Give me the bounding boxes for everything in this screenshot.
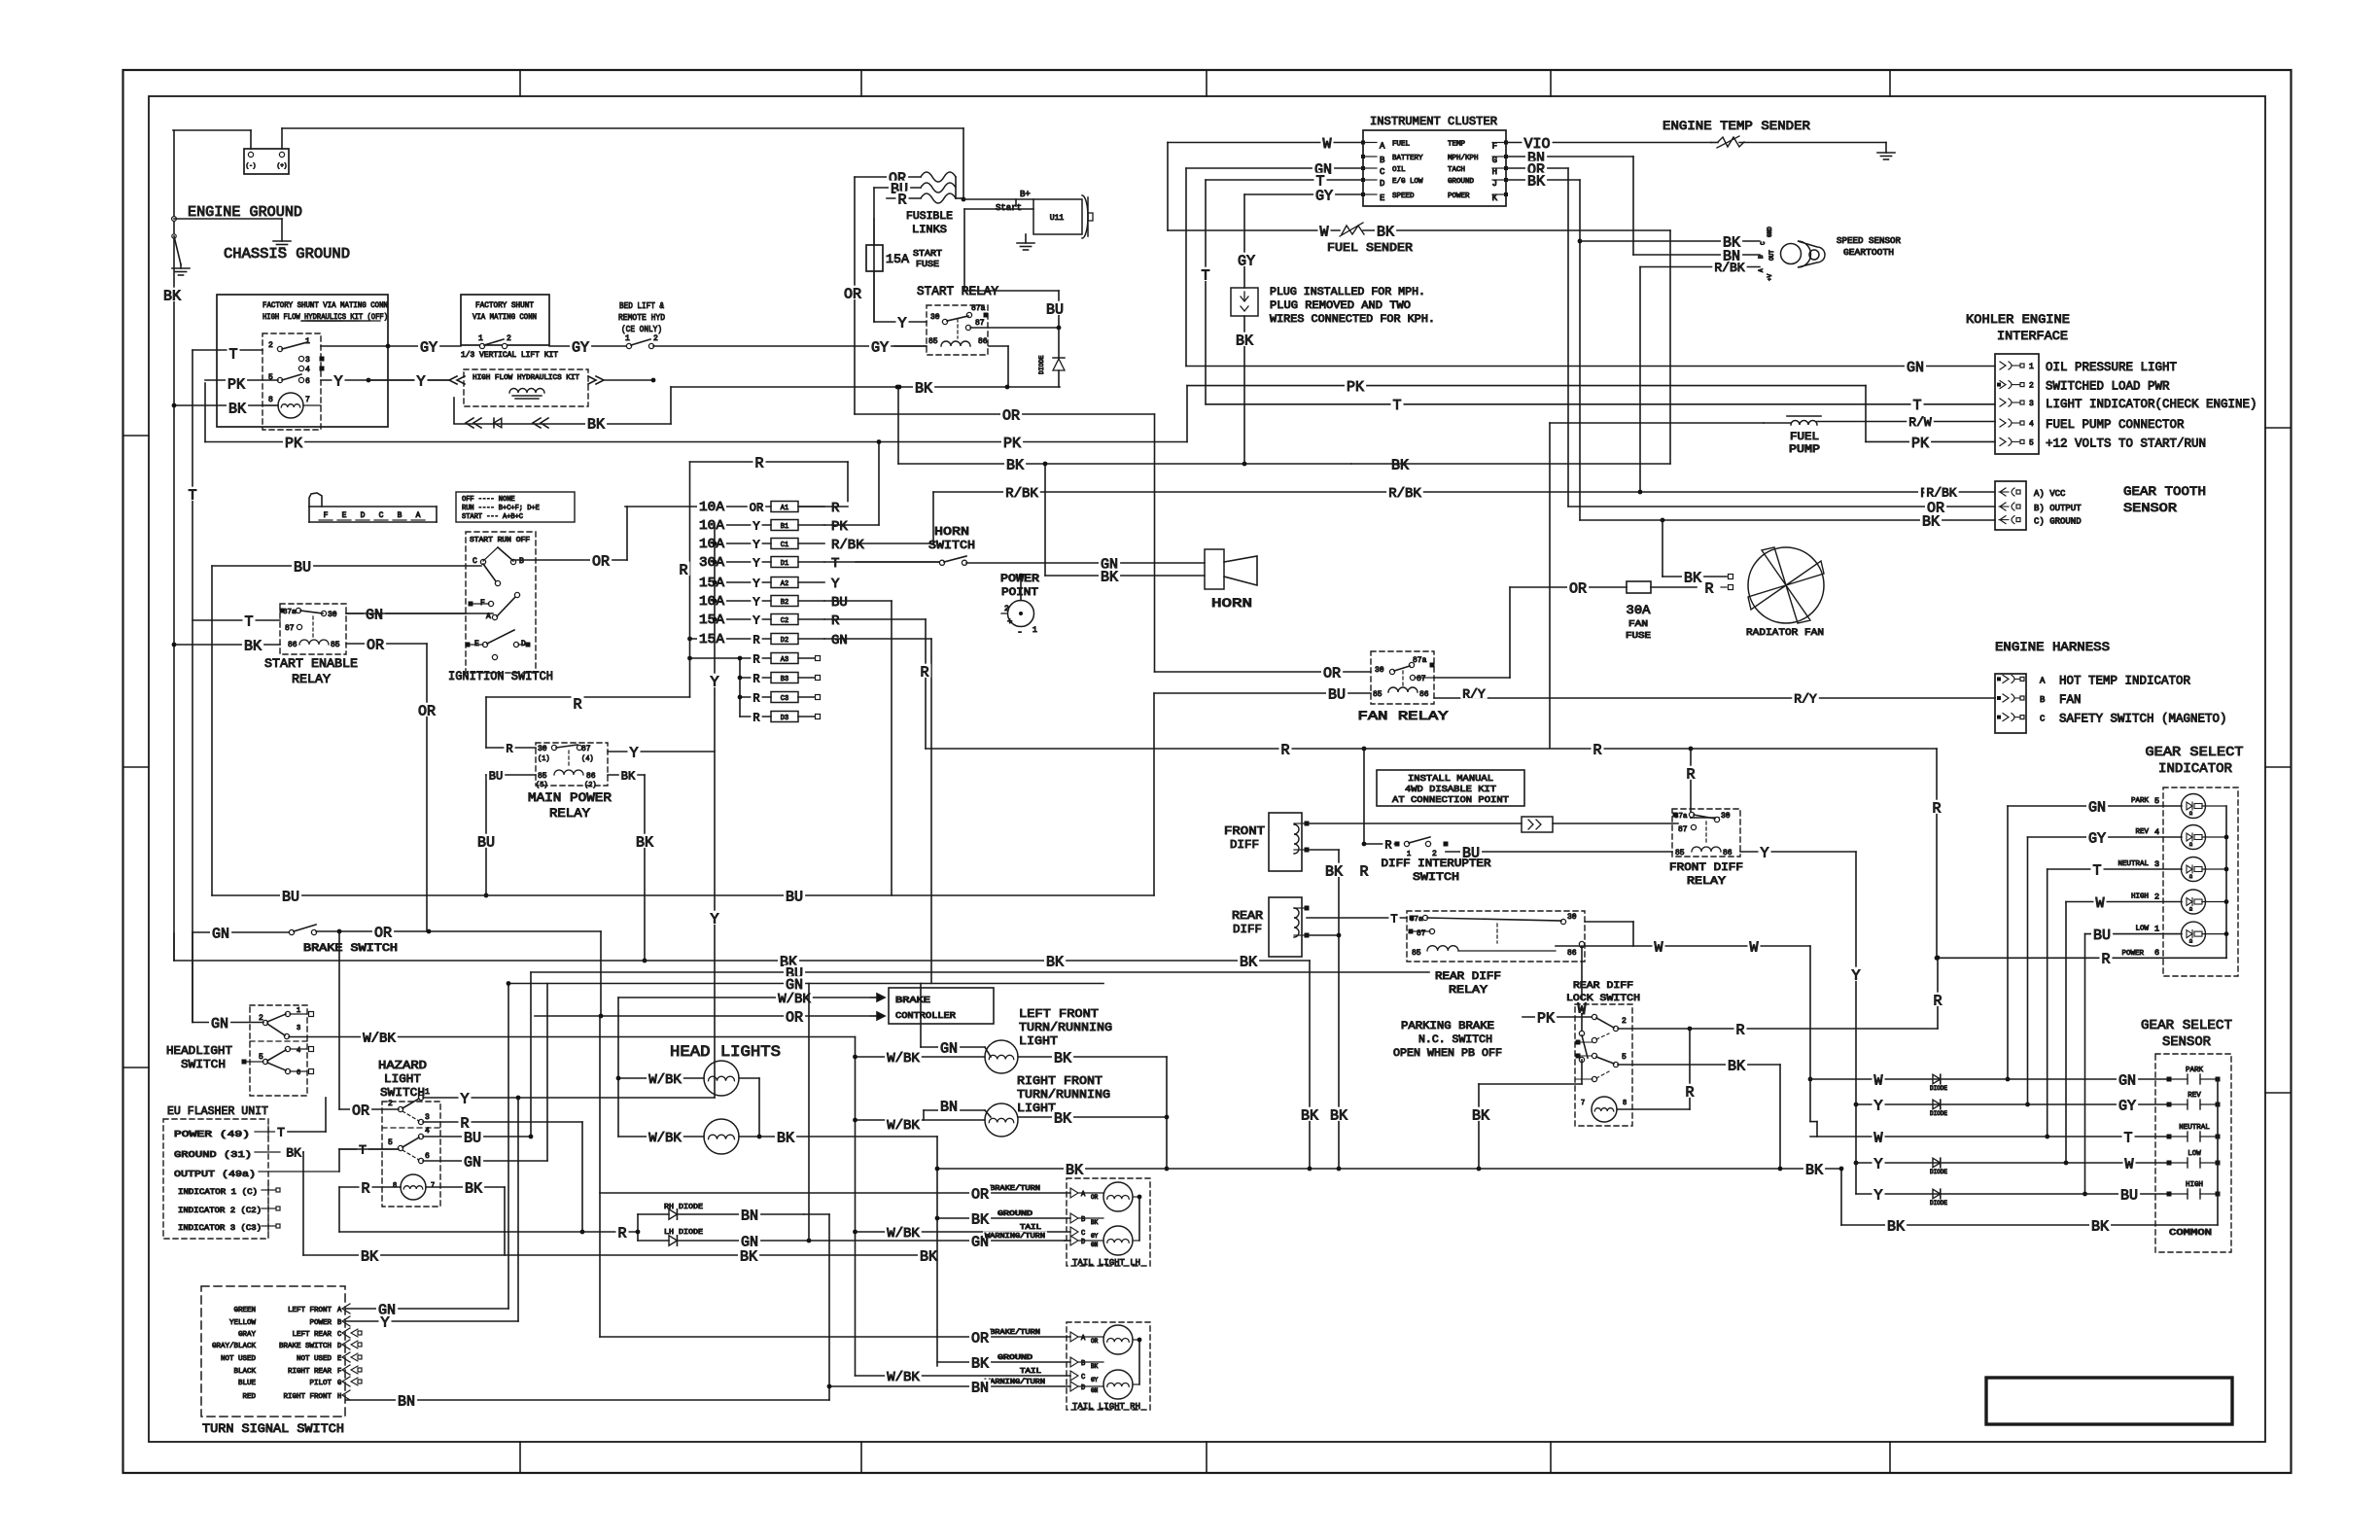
wire BK battery bus left <box>173 130 175 961</box>
hl pin3 <box>267 1014 300 1039</box>
svg-text:FUSE: FUSE <box>1626 631 1651 641</box>
connector FEDCBA outline <box>309 493 437 522</box>
diode bracket <box>636 1214 641 1241</box>
svg-text:HORN: HORN <box>934 525 969 539</box>
wire Y kit to BK node <box>604 378 655 383</box>
wire sensor row4 Y <box>1854 1161 2066 1166</box>
label BK cluster J <box>1525 173 1547 191</box>
label BU indicator <box>2091 927 2113 944</box>
label R power <box>2100 951 2113 968</box>
svg-text:R/BK: R/BK <box>1926 486 1956 501</box>
wire battery positive <box>282 128 963 149</box>
wire starter B+ <box>963 199 1033 206</box>
svg-text:8: 8 <box>1623 1100 1627 1107</box>
svg-text:OUTPUT (49a): OUTPUT (49a) <box>174 1169 256 1179</box>
svg-text:HORN: HORN <box>1211 596 1252 611</box>
svg-text:R: R <box>506 742 512 755</box>
start relay pin87 <box>965 319 1061 331</box>
svg-text:Y: Y <box>752 595 759 609</box>
wire T start enable <box>192 619 280 621</box>
wire Y front diff relay out <box>1740 851 1856 853</box>
border zone tick left 2 <box>123 766 150 768</box>
svg-text:CONTROLLER: CONTROLLER <box>895 1011 957 1021</box>
wire WBK tail rh <box>856 1367 1079 1382</box>
wire BN tail rh <box>827 1378 1103 1392</box>
eu ground <box>174 1149 280 1160</box>
node chassis ground <box>172 234 176 238</box>
ground symbol engine <box>273 241 291 248</box>
svg-text:86: 86 <box>288 641 297 649</box>
svg-text:DIODE: DIODE <box>1930 1200 1947 1207</box>
label BK sensor 2 <box>2089 1218 2111 1236</box>
svg-text:1: 1 <box>2154 925 2159 934</box>
label B BK lh <box>1081 1216 1099 1226</box>
label BK parking vert <box>1470 1107 1491 1125</box>
radiator fan circle <box>1748 547 1824 623</box>
tail rh lamp1 <box>1103 1325 1133 1354</box>
label FUSIBLE LINKS <box>906 211 953 236</box>
svg-text:1: 1 <box>478 334 483 343</box>
gear indicator LEDs <box>2008 794 2226 947</box>
wire BU main relay 85 <box>484 775 536 897</box>
svg-text:BRAKE SWITCH: BRAKE SWITCH <box>303 943 398 955</box>
node R bus 2 <box>1689 747 1694 752</box>
label BN cluster G <box>1525 150 1547 167</box>
svg-text:B2: B2 <box>781 599 788 607</box>
svg-text:30: 30 <box>538 745 547 753</box>
wire RW fuel pump <box>1817 421 1995 423</box>
svg-text:86: 86 <box>1723 849 1732 857</box>
label HAZARD LIGHT SWITCH <box>378 1059 427 1100</box>
front diff relay box <box>1672 809 1740 857</box>
label B+ <box>1020 190 1031 199</box>
wire R lock vert right <box>1936 956 1941 1029</box>
svg-text:BK: BK <box>163 288 181 304</box>
lock mid squares <box>1576 1040 1593 1059</box>
svg-text:T: T <box>244 613 253 630</box>
label POWER POINT <box>1000 574 1039 599</box>
fuse D2 15A <box>690 631 850 648</box>
svg-text:1: 1 <box>425 1088 430 1097</box>
front diff coil <box>1294 824 1299 854</box>
svg-text:B: B <box>398 511 402 520</box>
lock lamp <box>1581 1097 1627 1122</box>
wire R hazard lamp <box>339 1187 584 1234</box>
svg-text:POWER: POWER <box>1448 192 1470 200</box>
wire BN turn H <box>346 1399 829 1401</box>
svg-text:HIGH FLOW HYDRAULICS KIT: HIGH FLOW HYDRAULICS KIT <box>472 374 579 382</box>
svg-text:HIGH: HIGH <box>2186 1181 2203 1189</box>
svg-text:D1: D1 <box>781 560 788 568</box>
svg-text:NEUTRAL: NEUTRAL <box>2117 860 2149 868</box>
wire W net jog <box>1810 1122 1817 1137</box>
svg-text:GN: GN <box>1091 1242 1099 1248</box>
svg-text:+V: +V <box>1767 273 1773 281</box>
ignition switch box <box>466 532 536 673</box>
svg-text:Y: Y <box>710 911 718 927</box>
svg-text:HOT TEMP INDICATOR: HOT TEMP INDICATOR <box>2059 674 2191 687</box>
hl pin2 <box>259 1014 268 1026</box>
svg-text:BU: BU <box>477 834 495 851</box>
svg-text:W: W <box>1873 1130 1882 1146</box>
start enable pin 87a <box>280 608 301 616</box>
svg-text:Y: Y <box>1760 845 1768 861</box>
svg-text:WIRES CONNECTED FOR KPH.: WIRES CONNECTED FOR KPH. <box>1270 314 1435 326</box>
svg-text:LIGHT: LIGHT <box>1019 1034 1058 1048</box>
fusible link OR <box>921 172 956 182</box>
mph plug arrows <box>1241 292 1248 311</box>
wire eu power T riser <box>288 1098 326 1132</box>
svg-text:30: 30 <box>1567 913 1577 922</box>
label BK sensor 1 <box>1885 1218 1907 1236</box>
label T start enable <box>243 613 256 631</box>
turn signal box <box>201 1286 345 1417</box>
svg-text:OR: OR <box>1002 407 1020 424</box>
svg-text:INTERFACE: INTERFACE <box>1997 329 2068 343</box>
label PK lock switch <box>1535 1010 1557 1028</box>
node fuse D2 feed <box>687 637 692 661</box>
rear diff relay 87a <box>1410 915 1428 924</box>
hazard pin1 <box>402 1088 430 1108</box>
svg-text:C: C <box>2040 715 2046 724</box>
svg-text:A: A <box>2040 676 2046 685</box>
label GN brake switch <box>210 926 231 943</box>
svg-text:N.C. SWITCH: N.C. SWITCH <box>1418 1034 1492 1046</box>
svg-text:W/BK: W/BK <box>648 1131 682 1146</box>
svg-text:B: B <box>337 1319 341 1327</box>
wire T bus kohler <box>1206 403 1995 405</box>
label START RELAY <box>917 284 998 298</box>
svg-text:1: 1 <box>1407 851 1411 858</box>
svg-text:Y: Y <box>752 613 759 627</box>
rear diff relay 87 <box>1409 928 1435 938</box>
brake switch <box>289 925 316 935</box>
tail lh lamp1 <box>1103 1182 1133 1211</box>
connection point box <box>1522 817 1553 832</box>
border zone tick left 1 <box>123 435 150 437</box>
wire Y J1 to kit <box>368 379 449 381</box>
fuse A1 10A <box>625 499 841 516</box>
svg-text:BLUE: BLUE <box>238 1380 257 1387</box>
svg-text:GN: GN <box>366 607 383 623</box>
svg-text:B1: B1 <box>781 523 788 531</box>
svg-text:ENGINE HARNESS: ENGINE HARNESS <box>1995 640 2110 654</box>
svg-text:E: E <box>342 511 347 520</box>
label PARKING BRAKE <box>1393 1021 1502 1060</box>
svg-text:G: G <box>337 1380 341 1387</box>
label BU fan relay <box>1326 686 1347 704</box>
svg-text:RADIATOR FAN: RADIATOR FAN <box>1746 628 1824 639</box>
svg-text:POWER: POWER <box>2121 950 2144 958</box>
label W fuel sender <box>1318 224 1331 241</box>
svg-text:POWER (49): POWER (49) <box>174 1129 250 1139</box>
svg-text:GN: GN <box>211 1016 228 1032</box>
wire GY into relay 85 <box>894 345 926 347</box>
label RIGHT FRONT LIGHT <box>1017 1074 1110 1115</box>
border zone tick bottom 4 <box>1550 1442 1552 1473</box>
main relay pin87 <box>556 745 594 763</box>
label R diodes <box>616 1225 629 1242</box>
svg-text:4: 4 <box>305 366 310 374</box>
svg-text:FUEL SENDER: FUEL SENDER <box>1327 241 1413 255</box>
label BK plug <box>1234 332 1255 350</box>
svg-text:R/BK: R/BK <box>831 538 864 553</box>
label COMMON <box>2169 1228 2212 1238</box>
wire GN lf light <box>921 984 991 1058</box>
svg-text:D2: D2 <box>781 637 788 645</box>
wire GN turn A <box>346 1308 508 1310</box>
svg-text:C: C <box>472 557 477 566</box>
label BK lock5 <box>1726 1058 1747 1075</box>
fusible link R <box>921 193 956 203</box>
wire parking brake down <box>1479 1060 1582 1169</box>
svg-text:15A: 15A <box>886 252 909 266</box>
svg-text:PLUG REMOVED AND TWO: PLUG REMOVED AND TWO <box>1270 300 1411 312</box>
svg-text:GN: GN <box>831 633 848 648</box>
svg-text:BK: BK <box>1046 954 1064 970</box>
svg-text:R: R <box>1735 1022 1744 1038</box>
label BU fusible <box>889 181 910 198</box>
svg-text:BK: BK <box>1054 1050 1071 1067</box>
label W row1 <box>1872 1072 1885 1090</box>
svg-text:A3: A3 <box>781 656 788 664</box>
wire OR fan fuse <box>1510 587 1627 678</box>
svg-text:6: 6 <box>2154 948 2159 958</box>
svg-text:(4): (4) <box>581 755 594 763</box>
svg-text:30A: 30A <box>699 555 725 571</box>
wire fuse A1 R out <box>799 506 848 507</box>
svg-text:BK: BK <box>740 1248 757 1265</box>
label BRAKE SWITCH <box>303 943 398 955</box>
svg-text:GY: GY <box>1091 1377 1099 1383</box>
legend RUN <box>462 505 540 512</box>
svg-text:OIL: OIL <box>1392 166 1406 174</box>
label Y row2 <box>1872 1098 1885 1115</box>
svg-text:INDICATOR: INDICATOR <box>2158 761 2233 777</box>
svg-text:Ω: Ω <box>2189 939 2192 945</box>
svg-text:BK: BK <box>971 1211 989 1228</box>
label OR tail rh <box>969 1330 991 1347</box>
label REAR DIFF <box>1232 909 1263 936</box>
fan blades <box>1748 547 1824 623</box>
svg-text:BK: BK <box>1391 457 1409 473</box>
svg-text:R: R <box>679 562 687 578</box>
svg-text:R/BK: R/BK <box>1005 486 1038 502</box>
label SPEED SENSOR <box>1837 236 1902 258</box>
svg-text:RELAY: RELAY <box>1449 985 1487 997</box>
label OR cluster H <box>1525 161 1547 179</box>
label GEAR SELECT INDICATOR <box>2146 745 2244 777</box>
border zone tick top 4 <box>1550 70 1552 96</box>
svg-text:86: 86 <box>1419 690 1429 699</box>
svg-text:RELAY: RELAY <box>1687 876 1726 888</box>
ignition pin E <box>466 640 488 648</box>
svg-text:2: 2 <box>653 334 658 343</box>
svg-text:BK: BK <box>1887 1218 1905 1235</box>
svg-text:PLUG INSTALLED FOR MPH.: PLUG INSTALLED FOR MPH. <box>1270 287 1425 298</box>
svg-text:TAIL LIGHT LH: TAIL LIGHT LH <box>1072 1258 1140 1268</box>
lock pin3 <box>1592 1033 1609 1043</box>
svg-text:LEFT FRONT: LEFT FRONT <box>1019 1007 1099 1021</box>
svg-text:OR: OR <box>971 1330 989 1347</box>
label C GY lh <box>1081 1230 1099 1240</box>
label BN turn H <box>396 1393 417 1411</box>
wire GN bus <box>508 983 1103 985</box>
wire BK sensor <box>1841 1224 2218 1226</box>
wire fuse C2 R out <box>824 619 926 749</box>
node Y branch <box>367 378 371 383</box>
start enable pin 30 <box>300 611 337 619</box>
pin 7 J1 <box>305 396 310 404</box>
eu output <box>174 1149 339 1179</box>
label WBK headlamp2 <box>647 1130 683 1146</box>
svg-text:R: R <box>1685 1084 1694 1101</box>
label T cluster D <box>1314 173 1327 191</box>
wire W rear diff relay <box>1556 941 1810 948</box>
svg-text:BK: BK <box>1325 863 1343 880</box>
instrument cluster left pins <box>1361 141 1423 204</box>
label FRONT DIFF RELAY <box>1669 862 1743 888</box>
svg-text:7: 7 <box>431 1182 435 1190</box>
svg-text:BK: BK <box>1684 570 1701 586</box>
svg-text:BK: BK <box>1728 1058 1745 1074</box>
wire rear diff top T <box>1307 917 1407 919</box>
svg-text:B: B <box>2040 695 2046 705</box>
svg-text:W: W <box>1322 136 1331 153</box>
wire WBK headlight out <box>289 1036 618 1038</box>
label GEAR TOOTH SENSOR <box>2123 484 2206 515</box>
ground symbol starter <box>1017 234 1034 250</box>
svg-text:C3: C3 <box>781 695 788 703</box>
svg-text:7: 7 <box>305 396 310 404</box>
svg-text:D: D <box>337 1343 341 1350</box>
label REAR DIFF LOCK SWITCH <box>1566 981 1640 1004</box>
fan fuse <box>1627 581 1697 593</box>
svg-text:R/BK: R/BK <box>1714 261 1744 275</box>
rear diff relay coil <box>1412 924 1577 958</box>
svg-text:C: C <box>379 511 384 520</box>
front diff relay 87 <box>1678 824 1697 834</box>
wire GY lift to bedlift <box>549 345 627 347</box>
svg-text:WARNING/TURN: WARNING/TURN <box>985 1233 1045 1241</box>
svg-text:GY: GY <box>2118 1098 2136 1114</box>
svg-text:START ENABLE: START ENABLE <box>264 656 358 671</box>
arrows out kit right <box>588 376 604 384</box>
svg-text:OR: OR <box>750 501 763 514</box>
svg-text:E: E <box>1380 193 1384 203</box>
eu ind2 <box>178 1203 280 1215</box>
svg-text:Ω: Ω <box>2189 842 2192 848</box>
svg-text:OFF ---- NONE: OFF ---- NONE <box>462 496 515 504</box>
wire OR from ignition B <box>515 507 627 560</box>
svg-text:R: R <box>754 455 763 472</box>
pin 6 J1 <box>298 321 380 386</box>
svg-text:HIGH: HIGH <box>2131 893 2149 901</box>
fan relay box <box>1371 651 1434 704</box>
hazard divider <box>382 1127 440 1129</box>
label LEFT FRONT LIGHT <box>1019 1007 1112 1048</box>
label START RUN OFF <box>470 537 530 544</box>
svg-text:8: 8 <box>268 396 273 404</box>
label BRAKE CONTROLLER <box>895 996 957 1021</box>
label OR fusible <box>887 170 908 188</box>
label A OR lh <box>1081 1191 1099 1201</box>
label IGNITION SWITCH <box>448 669 553 683</box>
svg-text:BK: BK <box>1301 1107 1318 1124</box>
svg-text:A1: A1 <box>781 505 788 512</box>
svg-text:OR: OR <box>418 703 436 719</box>
wire BU vertical start relay <box>873 188 875 322</box>
svg-text:W/BK: W/BK <box>887 1051 920 1067</box>
wire conn point to relay 87 <box>1553 822 1678 824</box>
wire R diff int <box>1362 842 1397 847</box>
wire fusible OR <box>855 176 921 178</box>
label BK tail rh <box>969 1355 991 1373</box>
border zone tick left 3 <box>123 1067 150 1068</box>
wire BK rf light <box>1018 1116 1167 1118</box>
label Y 2 <box>415 373 428 391</box>
fuse C3 <box>740 691 821 705</box>
svg-text:W: W <box>1654 939 1662 956</box>
label W rear diff relay 2 <box>1748 939 1761 957</box>
svg-text:3: 3 <box>297 1025 300 1032</box>
svg-text:LEFT FRONT: LEFT FRONT <box>288 1307 332 1314</box>
label OR gear tooth <box>1925 500 1946 517</box>
wire start relay 86 BK <box>989 346 1008 387</box>
tail rh lamp2 <box>1103 1370 1133 1399</box>
tail rh lamp link <box>1133 1338 1141 1384</box>
svg-text:HEADLIGHT: HEADLIGHT <box>166 1044 232 1058</box>
label ENGINE GROUND <box>188 204 302 221</box>
label OR tail lh <box>969 1186 991 1204</box>
wire BK bus mid right <box>1351 463 1670 465</box>
svg-text:OR: OR <box>844 286 861 302</box>
svg-text:Ω: Ω <box>2189 874 2192 880</box>
svg-text:BK: BK <box>920 1248 937 1265</box>
svg-text:87: 87 <box>581 745 591 753</box>
wire fusible R <box>887 197 921 199</box>
fuse D1 30A <box>697 554 841 572</box>
label BK gear tooth <box>1920 513 1942 531</box>
svg-text:4WD DISABLE KIT: 4WD DISABLE KIT <box>1405 784 1496 794</box>
svg-text:TURN/RUNNING: TURN/RUNNING <box>1017 1088 1110 1102</box>
svg-text:GY: GY <box>1315 188 1333 204</box>
svg-text:BU: BU <box>294 559 311 576</box>
label GN lh diode <box>739 1234 760 1251</box>
instrument cluster right pins <box>1448 141 1508 204</box>
ignition blade mid <box>497 592 520 616</box>
connector J1 dashed box <box>262 333 321 430</box>
rear diff coil <box>1294 908 1299 937</box>
label BK flasher row 1 <box>359 1248 380 1266</box>
label BU sensor <box>2118 1187 2140 1205</box>
label WBK tail rh <box>885 1369 922 1385</box>
label W indicator <box>2094 894 2107 912</box>
wire sensor row5 Y <box>1856 1193 2085 1195</box>
svg-text:PK: PK <box>227 376 245 393</box>
svg-text:10A: 10A <box>699 500 725 515</box>
svg-text:Y: Y <box>710 674 718 690</box>
svg-text:FUSE: FUSE <box>916 260 939 269</box>
label R hazard <box>459 1115 472 1133</box>
gear select sensor box <box>2155 1054 2231 1252</box>
label W sensor <box>2123 1156 2136 1173</box>
rh diode <box>638 1209 804 1219</box>
switch bed lift <box>625 334 658 349</box>
svg-text:Ω: Ω <box>2189 907 2192 913</box>
label BN rf <box>938 1099 960 1116</box>
label OR start enable out <box>365 637 386 654</box>
